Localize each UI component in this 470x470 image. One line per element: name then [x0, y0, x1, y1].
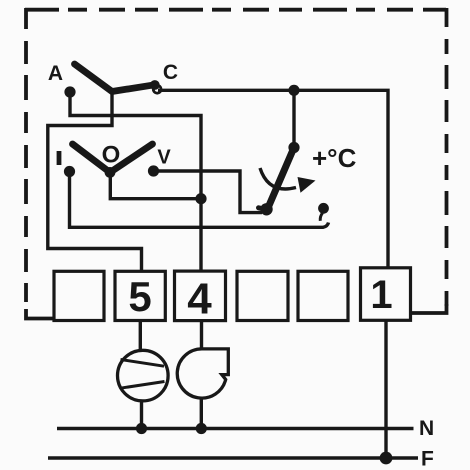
thermostat contact nub: [259, 208, 267, 210]
enclosure left bottom corner wire to terminal box: [26, 309, 55, 319]
svg-text:O: O: [102, 141, 121, 168]
label I: [57, 151, 62, 165]
dashed enclosure left border: [24, 8, 28, 302]
terminal dot V: [148, 165, 159, 176]
wire terminal 5 to lamp: [139, 321, 142, 352]
N line: [57, 427, 414, 430]
svg-text:V: V: [157, 147, 171, 169]
rotation arrowhead: [298, 177, 316, 193]
node junction above terminal 4: [195, 193, 206, 204]
terminal box 1: [361, 268, 411, 321]
svg-text:5: 5: [128, 273, 151, 320]
svg-text:C: C: [163, 61, 178, 84]
pivot dot O: [105, 167, 116, 178]
wire I terminal down and right to fixed contact: [70, 174, 329, 227]
wire fan to N line: [200, 398, 203, 428]
switch S1 lever A-C: [75, 64, 155, 92]
lamp chord lower: [120, 382, 164, 389]
wire switch pivot down-left-down-right to terminal 5: [48, 93, 142, 271]
wire O pivot down and right to node: [110, 176, 201, 199]
terminal box 5: [115, 271, 165, 320]
fixed contact pin tail: [320, 213, 322, 221]
thermostat lever top pivot dot: [288, 142, 299, 153]
thermostat lever: [268, 148, 295, 210]
lamp load symbol: [118, 350, 169, 401]
lamp chord upper: [121, 360, 165, 367]
terminal dot A: [64, 86, 75, 97]
contact C blob at lever end: [150, 80, 160, 90]
terminal box 4: [175, 271, 226, 321]
node junction on C wire: [288, 85, 299, 96]
switch S2 lever I-O-V: [73, 144, 153, 172]
rotation arc arrow: [260, 168, 296, 189]
svg-text:+°C: +°C: [312, 143, 357, 173]
svg-text:N: N: [419, 417, 434, 440]
junction dot fan on N: [196, 423, 207, 434]
terminal dot I: [64, 166, 75, 177]
dashed enclosure top border: [25, 8, 447, 12]
svg-text:1: 1: [370, 273, 392, 317]
svg-text:4: 4: [187, 275, 212, 324]
fixed contact pin: [318, 203, 329, 214]
wire A terminal down, right, down to terminal 4: [70, 94, 201, 271]
wire V terminal right, down, right to lever bottom: [156, 171, 262, 213]
enclosure right bottom corner wire to terminal 1: [411, 304, 447, 313]
junction dot lamp on N: [136, 423, 147, 434]
terminal box (blank) fourth: [237, 271, 288, 320]
thermostat lever bottom contact blob: [260, 203, 272, 215]
svg-text:A: A: [48, 62, 63, 85]
wire terminal 4 to fan: [200, 321, 203, 350]
junction dot terminal1 wire on F: [380, 452, 393, 465]
F line: [48, 456, 418, 459]
fan load symbol with outlet tab: [177, 349, 228, 398]
wire C contact to right and down to terminal 1: [158, 90, 388, 267]
dashed enclosure right border: [445, 8, 449, 308]
terminal box (blank) leftmost: [54, 271, 104, 320]
wire junction drop to thermostat lever: [292, 90, 295, 148]
wire terminal 1 down to F line: [384, 321, 387, 459]
contact C open circle: [153, 85, 161, 93]
wire lamp to N line: [140, 401, 143, 429]
terminal box (blank) fifth: [298, 271, 348, 320]
svg-text:F: F: [421, 448, 434, 470]
